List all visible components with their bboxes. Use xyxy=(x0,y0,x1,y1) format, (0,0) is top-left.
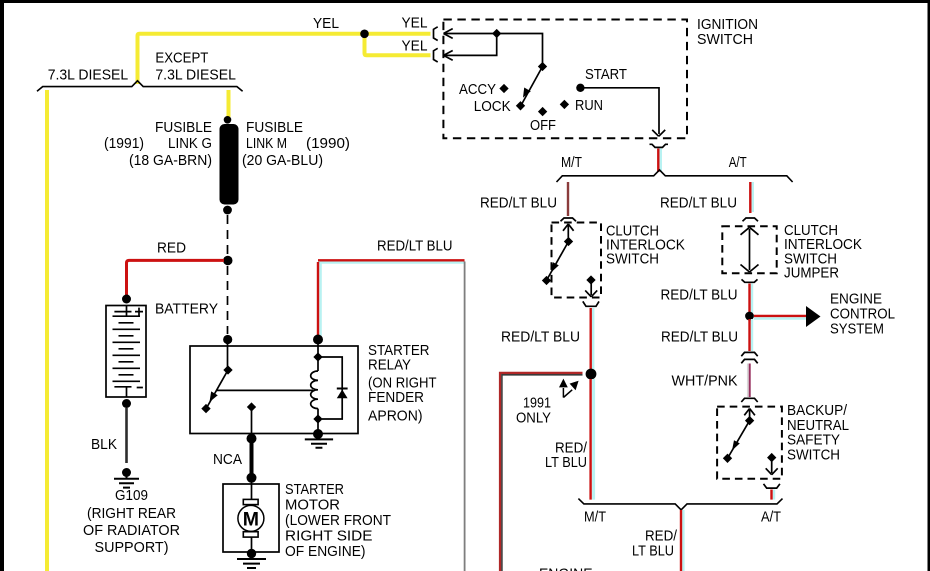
connector C10 backup switch top xyxy=(741,398,757,402)
svg-text:WHT/PNK: WHT/PNK xyxy=(672,373,738,390)
wire 1991-only branch xyxy=(502,375,583,571)
wire RED battery feed xyxy=(127,260,225,299)
wire START output xyxy=(580,88,659,134)
backup switch pin arrow up xyxy=(744,409,755,420)
svg-text:ACCY: ACCY xyxy=(459,81,496,98)
svg-text:YEL: YEL xyxy=(402,38,428,55)
wire RED/LT BLU M/T down xyxy=(592,379,595,500)
connector C8 pair upper xyxy=(741,352,757,356)
svg-text:(1990): (1990) xyxy=(306,135,350,152)
svg-text:G109: G109 xyxy=(115,487,148,504)
svg-text:SWITCH: SWITCH xyxy=(697,31,753,48)
connector C6 jumper top xyxy=(743,218,759,221)
wire WHT/PNK xyxy=(747,364,749,398)
node relay ground xyxy=(313,429,323,439)
svg-text:SWITCH: SWITCH xyxy=(787,446,840,463)
svg-text:RED/LT BLU: RED/LT BLU xyxy=(480,194,557,211)
wire RED/LT BLU to relay xyxy=(318,263,465,339)
svg-text:EXCEPT: EXCEPT xyxy=(155,50,208,67)
wire YEL horizontal top xyxy=(138,34,431,84)
backup switch output contact xyxy=(767,453,776,462)
svg-text:YEL: YEL xyxy=(402,15,428,32)
backup switch lever xyxy=(745,416,754,425)
brace merge M/T A/T xyxy=(578,499,782,510)
svg-text:STARTER: STARTER xyxy=(285,481,344,498)
svg-text:M/T: M/T xyxy=(561,154,582,171)
wire RED/LT BLU to engine (bottom) xyxy=(682,510,684,571)
svg-text:SYSTEM: SYSTEM xyxy=(830,321,884,338)
svg-text:RED/LT BLU: RED/LT BLU xyxy=(661,329,738,346)
node NCA bottom xyxy=(247,473,257,483)
svg-text:BLK: BLK xyxy=(91,436,117,453)
svg-text:OFF: OFF xyxy=(530,117,556,134)
starter relay box xyxy=(190,346,358,434)
wire RED/LT BLU below jumper xyxy=(751,284,753,314)
wire RED/LT BLU ignition out xyxy=(660,149,662,172)
svg-text:OF RADIATOR: OF RADIATOR xyxy=(83,522,180,539)
relay contact line xyxy=(216,389,313,391)
contact OFF xyxy=(538,107,547,116)
connector C11 backup switch bottom xyxy=(764,484,780,488)
wire YEL right drop (except 7.3L diesel) xyxy=(227,90,231,117)
svg-text:FUSIBLE: FUSIBLE xyxy=(246,119,303,136)
ignition switch box U1 xyxy=(443,20,687,139)
svg-text:LINK G: LINK G xyxy=(168,135,212,152)
wire gray drop xyxy=(464,262,466,571)
svg-text:RUN: RUN xyxy=(575,97,603,114)
node NCA top xyxy=(247,434,257,444)
svg-text:RED: RED xyxy=(157,240,186,257)
connector C2 (yel 2) xyxy=(434,48,438,62)
svg-text:LT BLU: LT BLU xyxy=(632,543,674,560)
motor M xyxy=(251,478,253,500)
brace split 7.3L diesel / except xyxy=(37,81,243,91)
svg-text:7.3L DIESEL: 7.3L DIESEL xyxy=(48,66,129,83)
ignition rotor lever xyxy=(538,62,547,71)
svg-text:(RIGHT REAR: (RIGHT REAR xyxy=(87,505,176,522)
node relay terminal right xyxy=(313,335,323,345)
node RED junction xyxy=(223,256,232,265)
relay coil xyxy=(317,344,319,433)
svg-text:A/T: A/T xyxy=(729,154,747,171)
svg-text:(20 GA-BLU): (20 GA-BLU) xyxy=(242,152,323,169)
contact ACCY xyxy=(499,84,508,93)
jumper double arrow xyxy=(741,227,759,272)
pin arrow B+ 1 xyxy=(444,29,453,39)
arrow engine control system xyxy=(806,306,821,327)
svg-text:RELAY: RELAY xyxy=(368,357,411,374)
svg-text:RED/LT BLU: RED/LT BLU xyxy=(660,194,737,211)
svg-text:ONLY: ONLY xyxy=(516,410,551,427)
1991 pointer arrows xyxy=(562,388,564,398)
node relay terminal left xyxy=(223,335,232,344)
contact START xyxy=(576,84,584,92)
wire YEL lower branch from junction xyxy=(365,34,431,56)
relay start contact xyxy=(247,402,256,411)
clutch switch output contact xyxy=(586,275,595,284)
wire to engine control system xyxy=(754,317,806,319)
node YEL junction xyxy=(360,30,369,39)
node link top xyxy=(224,116,232,124)
battery B1 xyxy=(106,306,146,398)
svg-text:M: M xyxy=(243,509,259,531)
contact LOCK xyxy=(516,101,525,110)
wire RED/LT BLU below clutch switch xyxy=(592,308,594,372)
svg-text:APRON): APRON) xyxy=(368,408,423,425)
svg-text:(LOWER FRONT: (LOWER FRONT xyxy=(285,512,391,529)
svg-text:FENDER: FENDER xyxy=(368,389,424,406)
svg-text:FUSIBLE: FUSIBLE xyxy=(155,119,212,136)
svg-text:LOCK: LOCK xyxy=(474,98,511,115)
wire ignition feed 2 xyxy=(444,34,497,56)
node battery - terminal xyxy=(122,399,131,408)
svg-text:RED/LT BLU: RED/LT BLU xyxy=(661,287,738,304)
node feed junction xyxy=(492,29,501,38)
svg-text:START: START xyxy=(585,66,627,83)
connector C9 pair lower xyxy=(741,359,757,363)
svg-text:7.3L DIESEL: 7.3L DIESEL xyxy=(155,66,236,83)
clutch switch pin arrow up xyxy=(563,224,574,240)
connector C7 jumper bottom xyxy=(742,279,758,282)
wire A/T drop xyxy=(752,182,754,212)
wire M/T drop (dark red) xyxy=(567,182,569,216)
svg-text:M/T: M/T xyxy=(584,509,606,526)
node battery + terminal xyxy=(122,295,131,304)
clutch interlock switch box S1 xyxy=(552,223,602,298)
svg-text:SUPPORT): SUPPORT) xyxy=(95,539,169,556)
fusible link G/M body xyxy=(220,124,239,205)
svg-text:YEL: YEL xyxy=(313,15,339,32)
backup/neutral safety switch box S2 xyxy=(717,407,782,479)
ground G109 xyxy=(114,473,139,488)
wire dashed to relay xyxy=(227,266,229,334)
connector C5 clutch switch bottom xyxy=(583,301,599,306)
relay diode D1 xyxy=(318,357,342,419)
wire RED/LT BLU to connector pair xyxy=(751,319,753,351)
connector C4 clutch switch top xyxy=(561,218,577,221)
clutch interlock switch jumper box xyxy=(722,226,776,273)
clutch switch lever xyxy=(564,237,573,246)
svg-text:RED/LT BLU: RED/LT BLU xyxy=(377,238,453,255)
pin arrow START out xyxy=(652,130,665,136)
wire NCA xyxy=(250,439,254,478)
relay switch lever xyxy=(227,344,229,370)
svg-text:A/T: A/T xyxy=(761,509,781,526)
node 1991 junction xyxy=(586,369,597,380)
svg-text:(1991): (1991) xyxy=(104,135,144,152)
svg-text:ENGINE: ENGINE xyxy=(539,566,593,571)
wire YEL left drop (7.3L diesel) xyxy=(45,90,49,571)
wire A/T stub to brace xyxy=(773,490,775,500)
svg-text:NCA: NCA xyxy=(213,451,242,468)
node ECS junction xyxy=(745,312,754,321)
border frame xyxy=(0,0,930,3)
pin arrow B+ 2 xyxy=(444,51,453,61)
svg-text:RIGHT SIDE: RIGHT SIDE xyxy=(285,528,373,545)
node ground dot G109 xyxy=(122,468,131,477)
brace split M/T A/T xyxy=(557,170,793,182)
svg-text:LINK M: LINK M xyxy=(246,135,287,152)
ground under relay xyxy=(305,439,333,447)
wire ignition feed 1 xyxy=(444,34,543,64)
svg-text:SWITCH: SWITCH xyxy=(606,251,659,268)
svg-text:LT BLU: LT BLU xyxy=(545,454,587,471)
starter motor box xyxy=(223,484,279,552)
svg-text:MOTOR: MOTOR xyxy=(285,497,340,514)
node link bottom xyxy=(223,206,232,215)
svg-text:JUMPER: JUMPER xyxy=(784,265,839,282)
connector C1 (yel 1) xyxy=(434,27,438,41)
wire BLK xyxy=(125,408,128,463)
svg-text:RED/LT BLU: RED/LT BLU xyxy=(501,328,580,345)
svg-text:(18 GA-BRN): (18 GA-BRN) xyxy=(129,152,212,169)
node motor ground xyxy=(247,549,256,558)
wire dashed below link xyxy=(227,215,229,255)
contact RUN xyxy=(560,100,569,109)
svg-text:BATTERY: BATTERY xyxy=(155,301,218,318)
connector C3 below ignition xyxy=(650,144,669,147)
ground under motor xyxy=(237,559,266,568)
svg-text:OF ENGINE): OF ENGINE) xyxy=(285,543,366,560)
